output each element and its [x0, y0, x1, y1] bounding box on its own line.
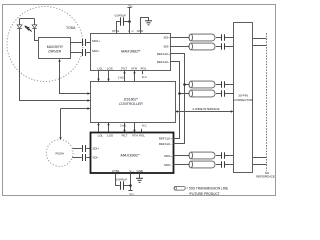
svg-text:MAX3991*: MAX3991*	[120, 153, 140, 158]
svg-text:POL: POL	[139, 134, 145, 138]
svg-text:SDO−: SDO−	[92, 49, 100, 53]
svg-text:2-WIRE INTERFACE: 2-WIRE INTERFACE	[192, 107, 219, 111]
svg-text:SDI−: SDI−	[93, 156, 100, 160]
svg-text:SDO+: SDO+	[164, 154, 172, 158]
svg-text:CTRL: CTRL	[112, 169, 120, 173]
svg-text:N.C.: N.C.	[142, 75, 148, 79]
svg-text:2 kΩ: 2 kΩ	[118, 75, 124, 79]
svg-text:SDI+: SDI+	[163, 36, 170, 40]
svg-text:MAX3982*: MAX3982*	[121, 48, 141, 53]
svg-text:REFCLK+: REFCLK+	[159, 137, 172, 141]
svg-text:CONNECTOR: CONNECTOR	[233, 98, 253, 102]
svg-text:SDI−: SDI−	[163, 45, 170, 49]
svg-text:ROSA: ROSA	[55, 151, 64, 155]
svg-text:2 kΩ: 2 kΩ	[120, 124, 126, 128]
svg-text:0.047µF: 0.047µF	[116, 177, 128, 181]
svg-text:N.C.: N.C.	[142, 124, 148, 128]
svg-text:REFCLK+: REFCLK+	[157, 52, 170, 56]
svg-text:FILT: FILT	[121, 67, 127, 71]
svg-text:VTH: VTH	[132, 134, 138, 138]
svg-text:*FUTURE PRODUCT: *FUTURE PRODUCT	[189, 192, 220, 196]
svg-text:= 50Ω TRANSMISSION LINE: = 50Ω TRANSMISSION LINE	[186, 187, 228, 191]
svg-text:LOS: LOS	[107, 134, 113, 138]
svg-text:LOL: LOL	[97, 67, 103, 71]
svg-text:REFERENCE: REFERENCE	[256, 175, 275, 179]
svg-text:30-PIN: 30-PIN	[238, 94, 248, 98]
svg-text:SDO+: SDO+	[92, 39, 100, 43]
svg-text:LOL: LOL	[98, 134, 104, 138]
svg-text:REFCLK−: REFCLK−	[157, 60, 170, 64]
svg-text:DRIVER: DRIVER	[48, 49, 61, 53]
svg-text:CTRL: CTRL	[112, 29, 120, 33]
svg-text:SDO−: SDO−	[164, 163, 172, 167]
svg-text:TOSA: TOSA	[66, 26, 76, 30]
svg-text:SDI+: SDI+	[93, 147, 100, 151]
svg-text:REFCLK−: REFCLK−	[159, 142, 172, 146]
svg-text:LOS: LOS	[107, 67, 113, 71]
svg-text:GND: GND	[136, 169, 142, 173]
svg-text:FILT: FILT	[122, 134, 128, 138]
svg-text:POL: POL	[141, 67, 147, 71]
svg-text:DS1862*: DS1862*	[124, 97, 139, 101]
svg-text:VTH: VTH	[131, 67, 137, 71]
svg-text:0.047µF: 0.047µF	[115, 14, 127, 18]
svg-text:CONTROLLER: CONTROLLER	[119, 102, 143, 106]
